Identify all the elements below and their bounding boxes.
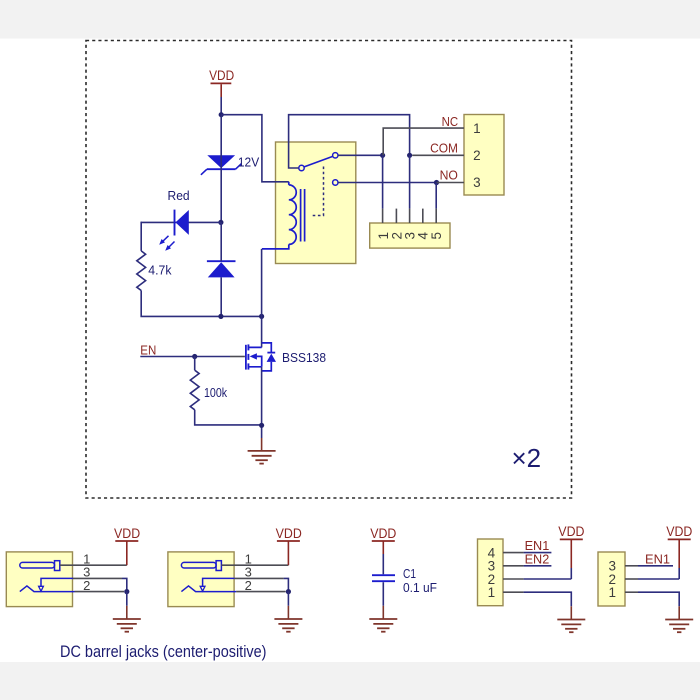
relay NO contact bbox=[333, 180, 338, 185]
zener diode D1 12V bbox=[201, 155, 242, 175]
dashed schematic frame bbox=[86, 41, 572, 499]
svg-text:COM: COM bbox=[430, 141, 458, 155]
node EN junction bbox=[192, 354, 197, 359]
barrel jack J2 body bbox=[168, 552, 234, 607]
svg-text:EN1: EN1 bbox=[525, 539, 550, 553]
pin wire X3 pin 3 bbox=[503, 565, 524, 567]
ground GND J1 bbox=[113, 606, 141, 632]
wire J2 to ground bbox=[287, 592, 289, 606]
node NO junction bbox=[434, 180, 439, 185]
barrel jack J1 body bbox=[6, 552, 72, 607]
svg-text:DC barrel jacks (center-positi: DC barrel jacks (center-positive) bbox=[60, 643, 267, 661]
connector X2 (5-pin) body bbox=[370, 223, 450, 248]
svg-text:VDD: VDD bbox=[114, 526, 140, 541]
pin wire X4 pin 2 bbox=[625, 578, 638, 580]
wire resistor bottom return bbox=[141, 291, 261, 317]
relay switch arm bbox=[304, 156, 333, 167]
capacitor C1 bbox=[372, 575, 395, 581]
node LED row junction bbox=[218, 220, 223, 225]
svg-text:1: 1 bbox=[609, 585, 617, 600]
svg-text:BSS138: BSS138 bbox=[282, 350, 326, 365]
svg-text:VDD: VDD bbox=[209, 68, 234, 83]
svg-text:EN: EN bbox=[140, 344, 156, 358]
svg-text:12V: 12V bbox=[238, 155, 260, 169]
svg-text:5: 5 bbox=[429, 232, 444, 240]
pin stub X2 pin 3 bbox=[409, 209, 411, 223]
svg-text:Red: Red bbox=[168, 189, 190, 203]
wire X3 pin 2 to VDD bbox=[524, 578, 572, 580]
LED D2 Red bbox=[175, 210, 189, 236]
pin wire J1 pin 1 bbox=[60, 564, 127, 566]
svg-text:2: 2 bbox=[245, 578, 252, 593]
LED arrow 1 bbox=[159, 236, 168, 245]
barrel jack J1 center pin symbol bbox=[20, 561, 60, 571]
node J1 ground junction bbox=[124, 589, 129, 594]
pin wire X3 pin 2 bbox=[503, 578, 524, 580]
wire LED row bbox=[141, 221, 221, 223]
node coil-drain junction bbox=[259, 314, 264, 319]
resistor R1 4.7k bbox=[137, 251, 146, 291]
connector X1 (NC/COM/NO) body bbox=[464, 115, 504, 196]
svg-text:EN2: EN2 bbox=[525, 552, 550, 566]
ground GND X4 bbox=[665, 606, 693, 632]
wire LED to resistor R1 bbox=[140, 222, 142, 251]
LED arrow 2 bbox=[165, 242, 174, 251]
pin wire J2 pin 2 bbox=[236, 591, 286, 593]
barrel jack J2 switch pin symbol bbox=[200, 578, 234, 591]
pin stub X2 pin 4 bbox=[422, 209, 424, 223]
wire X4 pin 2 to VDD bbox=[638, 578, 679, 580]
node COM junction bbox=[407, 153, 412, 158]
pin stub X2 pin 5 bbox=[435, 209, 437, 223]
svg-text:×2: ×2 bbox=[512, 443, 542, 473]
wire J2 pin3 to pin2 bbox=[284, 578, 289, 591]
svg-text:1: 1 bbox=[488, 585, 496, 600]
node rail bottom junction bbox=[218, 314, 223, 319]
barrel jack J2 center pin symbol bbox=[181, 561, 221, 571]
relay NC contact bbox=[333, 153, 338, 158]
wire pole to COM junction bbox=[289, 115, 410, 168]
pin wire J1 pin 3 bbox=[73, 577, 122, 579]
wire NC contact to NC vertical bbox=[338, 154, 383, 156]
svg-text:VDD: VDD bbox=[370, 526, 396, 541]
wire coil bottom to drain bbox=[261, 249, 263, 348]
wire rail diode to bottom junction bbox=[220, 277, 222, 316]
svg-text:4.7k: 4.7k bbox=[148, 263, 172, 278]
pin stub X2 pin 2 bbox=[395, 209, 397, 223]
relay core bars bbox=[301, 189, 305, 242]
node source junction bbox=[259, 423, 264, 428]
wire rail zener to LED row bbox=[220, 116, 222, 223]
wire NO contact to NO junction bbox=[338, 182, 437, 184]
svg-text:NO: NO bbox=[440, 169, 459, 183]
pin wire X4 pin 1 bbox=[625, 591, 638, 593]
pin wire J1 pin 2 bbox=[75, 591, 125, 593]
wire EN1 stub X3 bbox=[524, 552, 552, 554]
diode D3 bbox=[207, 261, 236, 277]
ground GND X3 bbox=[557, 606, 585, 632]
wire J1 pin3 to pin2 bbox=[122, 578, 127, 591]
svg-text:1: 1 bbox=[473, 121, 481, 136]
node NC junction bbox=[380, 153, 385, 158]
svg-text:2: 2 bbox=[83, 578, 90, 593]
connector X4 (3-pin) body bbox=[598, 552, 625, 606]
body diode of Q1 bbox=[262, 343, 276, 371]
svg-text:NC: NC bbox=[442, 115, 459, 129]
pin wire J2 pin 3 bbox=[235, 577, 284, 579]
wire J1 to ground bbox=[126, 592, 128, 606]
pin wire gate bbox=[230, 356, 245, 358]
connector X3 (4-pin) body bbox=[478, 539, 504, 606]
relay pole contact bbox=[299, 165, 304, 170]
barrel jack J1 sleeve symbol bbox=[20, 586, 75, 592]
wire EN junction to resistor R2 bbox=[194, 357, 196, 371]
resistor R2 100k bbox=[190, 370, 199, 410]
svg-text:EN1: EN1 bbox=[645, 552, 670, 566]
node VDD junction bbox=[219, 112, 224, 117]
svg-text:VDD: VDD bbox=[276, 526, 302, 541]
wire VDD to C1 bbox=[382, 554, 384, 574]
barrel jack J1 switch pin symbol bbox=[39, 578, 73, 591]
pin wire X3 pin 1 bbox=[503, 591, 524, 593]
wire X3 pin 1 to ground bbox=[524, 592, 572, 606]
ground GND J2 bbox=[274, 606, 302, 632]
svg-text:100k: 100k bbox=[204, 385, 227, 400]
svg-text:VDD: VDD bbox=[558, 524, 584, 539]
svg-text:3: 3 bbox=[473, 175, 481, 190]
wire COM junction down to X2 pin 3 bbox=[409, 155, 411, 208]
relay K1 body bbox=[276, 142, 356, 264]
node J2 ground junction bbox=[286, 589, 291, 594]
pin wire J2 pin 1 bbox=[221, 564, 288, 566]
svg-text:VDD: VDD bbox=[666, 524, 692, 539]
pin wire X3 pin 4 bbox=[503, 552, 524, 554]
wire VDD junction to relay coil top bbox=[221, 115, 289, 182]
pin wire NO to connector X1 pin 3 bbox=[437, 182, 465, 184]
svg-text:2: 2 bbox=[473, 148, 481, 163]
pin stub X2 pin 1 bbox=[382, 209, 384, 223]
ground GND C1 bbox=[369, 606, 397, 632]
svg-text:0.1 uF: 0.1 uF bbox=[403, 580, 437, 595]
ground GND main bbox=[248, 438, 276, 464]
wire VDD X3 vertical bbox=[570, 568, 572, 579]
relay actuator dashed link bbox=[312, 167, 323, 216]
wire NO junction down to X2 pin 5 bbox=[435, 183, 437, 209]
pin wire X4 pin 3 bbox=[625, 565, 638, 567]
wire EN2 stub X3 bbox=[524, 565, 552, 567]
wire C1 to ground bbox=[382, 582, 384, 606]
wire X4 pin 1 to ground bbox=[638, 592, 679, 606]
pin wire COM to connector X1 pin 2 bbox=[412, 154, 464, 156]
wire resistor R2 to source return bbox=[195, 410, 262, 425]
wire source to ground bbox=[261, 367, 263, 438]
wire VDD X4 vertical bbox=[678, 568, 680, 579]
wire EN1 stub X4 bbox=[638, 565, 673, 567]
wire rail LED row to diode bbox=[220, 222, 222, 261]
svg-text:C1: C1 bbox=[403, 566, 416, 581]
barrel jack J2 sleeve symbol bbox=[181, 586, 236, 592]
wire EN to gate bbox=[140, 356, 230, 358]
pin wire NC to connector X1 pin 1 bbox=[383, 128, 464, 155]
relay coil L1 bbox=[262, 182, 296, 249]
wire NC junction down to X2 pin 1 bbox=[382, 155, 384, 208]
transistor Q1 BSS138 bbox=[246, 344, 262, 369]
wire VDD stub to junction bbox=[220, 97, 222, 116]
